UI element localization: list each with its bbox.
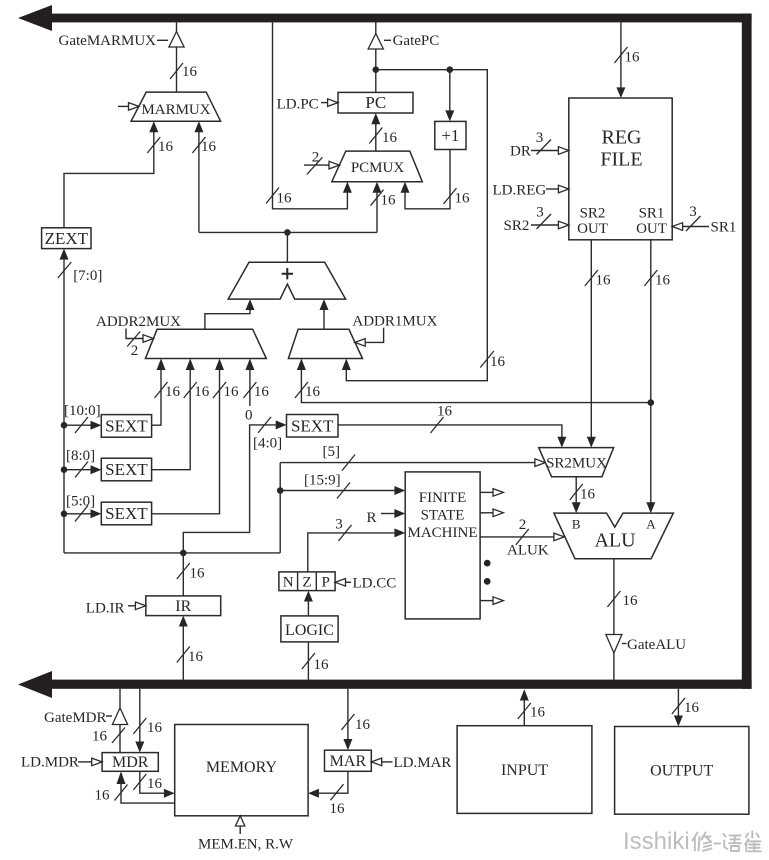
svg-text:16: 16 (381, 193, 397, 209)
svg-text:OUT: OUT (636, 221, 667, 237)
svg-text:DR: DR (510, 144, 531, 160)
wire adder out to MARMUX right input, 16 (192, 121, 216, 232)
svg-text:16: 16 (147, 776, 163, 792)
LD.CC control (335, 576, 396, 592)
svg-text:2: 2 (131, 343, 139, 359)
wire SR2MUX out to ALU B, 16 (570, 477, 596, 513)
wire bus to GateMDR (119, 689, 121, 708)
wire PC out branch right (346, 70, 487, 381)
svg-text:0: 0 (245, 408, 253, 424)
register IR (146, 596, 221, 616)
mux ADDR1MUX (288, 314, 437, 359)
svg-text:16: 16 (224, 384, 240, 400)
svg-text:Z: Z (302, 575, 311, 591)
wire ADDR1MUX out to adder right input (320, 299, 329, 329)
svg-text:LD.MDR: LD.MDR (21, 755, 79, 771)
wire IR[4:0] to SEXT (183, 417, 286, 553)
MARMUX select arrow (118, 103, 139, 111)
right bus bar (742, 14, 752, 689)
FSM output bottom (480, 597, 503, 605)
sign extender SEXT [4:0] (287, 415, 339, 438)
svg-text:SR1: SR1 (639, 206, 665, 222)
svg-text:[5]: [5] (323, 444, 341, 460)
LD.MAR control (371, 755, 451, 771)
wire GatePC to bus (375, 22, 377, 34)
wire spine to SEXT[10:0] (64, 403, 101, 433)
svg-text:SEXT: SEXT (105, 504, 148, 523)
node spine [5:0] (61, 511, 68, 518)
svg-text:3: 3 (335, 517, 343, 533)
svg-text:16: 16 (437, 404, 453, 420)
svg-text:16: 16 (95, 788, 111, 804)
svg-text:16: 16 (201, 139, 217, 155)
svg-text:PCMUX: PCMUX (351, 160, 405, 176)
wire spine to SEXT[5:0] (64, 494, 101, 522)
wire SEXT[8:0] out to ADDR2MUX input2, 16 (152, 359, 210, 470)
svg-text:[8:0]: [8:0] (66, 448, 95, 464)
svg-text:16: 16 (382, 130, 398, 146)
alu ALU (554, 513, 673, 559)
svg-text:FINITE: FINITE (419, 490, 467, 506)
wire SEXT[10:0] out to ADDR2MUX input1, 16 (152, 359, 181, 426)
register MAR (325, 750, 372, 771)
wire IR riser to [15:9] and [5] (279, 463, 281, 553)
svg-text:3: 3 (689, 204, 697, 220)
svg-text:INPUT: INPUT (501, 762, 548, 779)
svg-text:IR: IR (175, 598, 191, 615)
svg-text:SEXT: SEXT (105, 460, 148, 479)
svg-text:16: 16 (92, 729, 108, 745)
register file REG FILE (569, 98, 672, 240)
SR1 control, 3 (672, 204, 736, 236)
node spine [10:0] (61, 422, 68, 429)
svg-text:[10:0]: [10:0] (64, 403, 101, 419)
wire PC out to GatePC (375, 49, 377, 92)
svg-text:LD.MAR: LD.MAR (394, 755, 452, 771)
wire adder output to distribution (286, 232, 288, 262)
LD.PC control (277, 97, 338, 113)
LD.IR control (86, 601, 146, 617)
svg-text:16: 16 (455, 191, 471, 207)
LD.MDR control (21, 755, 102, 771)
node +1 branch junction (447, 66, 454, 73)
wire SR1 to ADDR1MUX left input, 16 (295, 359, 651, 403)
svg-text:SR2: SR2 (504, 218, 530, 234)
wire ALU out to GateALU, 16 (607, 559, 638, 635)
svg-text:MEM.EN, R.W: MEM.EN, R.W (198, 837, 294, 853)
sign extender SEXT [8:0] (101, 458, 151, 481)
svg-text:GateMDR: GateMDR (44, 710, 107, 726)
svg-text:GateALU: GateALU (627, 637, 686, 653)
wire SEXT[5:0] out to ADDR2MUX input3, 16 (152, 359, 239, 514)
PCMUX select, 2 (304, 150, 339, 175)
wire MARMUX output to gate, 16 (170, 47, 198, 92)
wire MEMORY to MDR, 16 (95, 771, 175, 803)
wire [5] to SR2MUX select (280, 444, 545, 471)
svg-text:16: 16 (147, 720, 163, 736)
svg-text:OUT: OUT (577, 221, 608, 237)
svg-text:16: 16 (625, 50, 641, 66)
svg-text:MAR: MAR (330, 753, 367, 770)
svg-text:16: 16 (355, 717, 371, 733)
node spine [8:0] (61, 466, 68, 473)
svg-text:FILE: FILE (600, 149, 642, 171)
R input to FSM (366, 509, 405, 526)
svg-text:SEXT: SEXT (291, 417, 334, 436)
svg-text:16: 16 (165, 384, 181, 400)
bottom bus (18, 671, 752, 698)
svg-text:MARMUX: MARMUX (141, 102, 210, 118)
SR2 control, 3 (504, 205, 569, 235)
svg-text:ADDR2MUX: ADDR2MUX (96, 314, 181, 330)
wire bus to LOGIC, 16 (302, 642, 329, 680)
svg-text:SR1: SR1 (711, 220, 737, 236)
svg-text:16: 16 (655, 273, 671, 289)
wire bus to MAR, 16 (341, 689, 370, 750)
svg-text:+1: +1 (441, 126, 459, 145)
gate GateALU (606, 635, 686, 654)
svg-text:ADDR1MUX: ADDR1MUX (352, 314, 437, 330)
mux SR2MUX (539, 448, 614, 477)
wire GateALU to bus (613, 653, 615, 680)
wire MDR to MEMORY, 16 (133, 771, 174, 797)
gate GateMDR (44, 708, 128, 726)
wire INPUT to bus, 16 (518, 689, 546, 726)
svg-text:LD.CC: LD.CC (353, 576, 397, 592)
svg-text:LD.REG: LD.REG (493, 183, 547, 199)
top bus (18, 5, 752, 31)
wire GateMDR to MDR, 16 (92, 725, 125, 753)
LD.REG control (493, 183, 569, 199)
svg-text:ZEXT: ZEXT (45, 229, 89, 248)
svg-text:PC: PC (365, 93, 386, 112)
svg-text:N: N (283, 575, 294, 591)
svg-text:MDR: MDR (112, 754, 149, 771)
wire IR out horizontal (64, 552, 280, 554)
wire x487 16 slash (480, 351, 505, 370)
mux MARMUX (131, 92, 221, 121)
output device OUTPUT (615, 727, 749, 815)
register PC (338, 92, 413, 113)
wire SR2 OUT down, 16 (585, 240, 611, 448)
svg-text:REG: REG (602, 127, 642, 149)
condition codes N Z P (279, 572, 335, 591)
svg-text:16: 16 (330, 801, 346, 817)
ADDR2MUX select, 2 (126, 329, 153, 360)
wire bus to IR, 16 (177, 616, 204, 680)
svg-text:16: 16 (190, 566, 206, 582)
svg-text:16: 16 (277, 191, 293, 207)
wire bus to MDR input, 16 (133, 689, 162, 753)
wire bus to REG FILE, 16 (614, 22, 640, 98)
svg-text:3: 3 (536, 205, 544, 221)
svg-text:[5:0]: [5:0] (66, 494, 95, 510)
wire ZEXT to MARMUX left input, 16 (64, 121, 174, 228)
wire adder out to PCMUX middle input, 16 (371, 182, 397, 233)
svg-text:2: 2 (519, 517, 527, 533)
wire PCMUX to PC, 16 (369, 113, 397, 151)
node SR1 to ADDR1MUX junction (648, 399, 655, 406)
wire adder out distribution horizontal (199, 231, 377, 233)
svg-text:16: 16 (580, 487, 596, 503)
wire bus to PCMUX left input, 16 (266, 22, 352, 208)
mux PCMUX (332, 151, 423, 182)
svg-text:MACHINE: MACHINE (408, 525, 478, 541)
wire PC out to +1 (445, 70, 454, 122)
wire MAR to MEMORY, 16 (308, 771, 348, 817)
wire IR spine to ZEXT, [7:0] (58, 249, 103, 553)
svg-text:ALU: ALU (594, 530, 636, 552)
svg-text:R: R (366, 510, 376, 526)
svg-text:B: B (572, 517, 581, 532)
wire [15:9] to FSM (280, 473, 405, 499)
svg-text:MEMORY: MEMORY (206, 759, 278, 776)
svg-text:STATE: STATE (421, 508, 465, 524)
wire IR to node, 16 (177, 553, 205, 596)
svg-text:OUTPUT: OUTPUT (650, 763, 713, 780)
mux ADDR2MUX (96, 314, 266, 359)
MEM.EN control (198, 816, 294, 853)
svg-text:3: 3 (536, 130, 544, 146)
ADDR1MUX right input arrowhead, 16 (342, 359, 351, 371)
svg-text:LOGIC: LOGIC (285, 622, 334, 639)
svg-text:SR2MUX: SR2MUX (546, 456, 607, 472)
wire NZP to FSM, 3 (308, 517, 405, 572)
wire SR1 OUT down to ALU A, 16 (644, 240, 670, 513)
svg-text:P: P (322, 575, 330, 591)
node IR out (180, 550, 187, 557)
svg-text:[15:9]: [15:9] (304, 473, 341, 489)
svg-text:16: 16 (684, 700, 700, 716)
svg-text:16: 16 (530, 705, 546, 721)
svg-text:2: 2 (312, 150, 320, 166)
svg-text:16: 16 (182, 64, 198, 80)
wire ADDR2MUX out to adder left input (205, 299, 255, 329)
svg-text:16: 16 (623, 593, 639, 609)
svg-text:SEXT: SEXT (105, 417, 148, 436)
FSM output 2 (480, 509, 503, 517)
svg-text:LD.IR: LD.IR (86, 601, 125, 617)
node adder out (284, 229, 291, 236)
svg-text:16: 16 (158, 139, 174, 155)
svg-text:ALUK: ALUK (507, 543, 549, 559)
wire GateMARMUX to bus (176, 22, 178, 32)
svg-text:16: 16 (305, 384, 321, 400)
adder + (228, 262, 345, 299)
svg-text:16: 16 (596, 273, 612, 289)
gate GateMARMUX (59, 32, 185, 50)
wire +1 to PCMUX right input, 16 (401, 150, 471, 209)
memory MEMORY (175, 725, 308, 816)
sign extender SEXT [10:0] (101, 415, 151, 438)
svg-text:16: 16 (194, 384, 210, 400)
wire SEXT[4:0] to SR2MUX left input, 16 (338, 404, 566, 448)
FSM ALUK output to ALU, 2 (480, 517, 564, 559)
node PC out junction (373, 66, 380, 73)
ADDR1MUX select (355, 328, 384, 346)
incrementer +1 (435, 121, 466, 149)
svg-text:16: 16 (188, 649, 204, 665)
wire bus to OUTPUT, 16 (672, 689, 700, 727)
logic block LOGIC (281, 616, 338, 642)
register ZEXT (42, 228, 91, 249)
wire constant 0 to ADDR2MUX input4, 16 (243, 359, 269, 424)
node [15:9] branch (277, 487, 284, 494)
svg-text:GatePC: GatePC (393, 33, 440, 49)
input device INPUT (457, 726, 592, 814)
sign extender SEXT [5:0] (101, 502, 151, 525)
control unit FINITE STATE MACHINE (405, 472, 480, 619)
wire LOGIC to NZP (304, 591, 313, 616)
svg-text:LD.PC: LD.PC (277, 97, 319, 113)
gate GatePC (368, 33, 439, 49)
FSM ellipsis dots (484, 560, 491, 567)
DR control, 3 (510, 130, 569, 160)
watermark (623, 828, 761, 855)
svg-text:16: 16 (490, 354, 506, 370)
wire spine to SEXT[8:0] (64, 448, 101, 478)
svg-text:[7:0]: [7:0] (73, 268, 102, 284)
FSM output 1 (480, 489, 503, 497)
svg-text:16: 16 (254, 384, 270, 400)
svg-text:[4:0]: [4:0] (253, 436, 282, 452)
svg-text:GateMARMUX: GateMARMUX (59, 33, 157, 49)
svg-text:Isshiki: Isshiki (623, 828, 690, 855)
svg-text:A: A (646, 517, 656, 532)
svg-text:16: 16 (314, 657, 330, 673)
svg-text:SR2: SR2 (580, 206, 606, 222)
register MDR (102, 753, 158, 772)
